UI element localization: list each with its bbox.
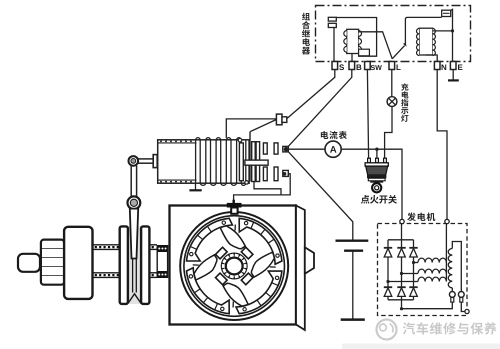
rectifier diodes column 2: [397, 240, 405, 300]
brush holders: [216, 247, 253, 284]
motor housing: [170, 206, 297, 325]
motor housing side 3D: [296, 206, 305, 331]
brush left: [451, 298, 454, 303]
solenoid ground: [195, 183, 197, 190]
regulator arm path: [405, 17, 441, 45]
wire N to generator: [437, 70, 447, 220]
wire tap to middle prong: [376, 149, 378, 158]
relay contact K2: [442, 10, 451, 16]
solenoid coil turns: [196, 138, 246, 186]
collar pulley: [120, 226, 150, 304]
shaft threaded section lower-left: [93, 273, 120, 278]
shift fork arm: [130, 209, 138, 259]
phase tap 1: [412, 261, 415, 264]
wire battery to ground: [352, 251, 354, 319]
upper pivot: [129, 156, 139, 166]
wire S to solenoid switch terminal: [287, 70, 335, 119]
relay contact K1 lower: [328, 23, 336, 27]
wire contact plate to motor: [254, 182, 281, 195]
field pole SW: [187, 255, 234, 314]
watermark text 汽车维修与保养: [403, 322, 497, 334]
stator coil 3: [418, 277, 446, 281]
rotor field winding: [448, 242, 461, 292]
plunger crossbar: [153, 155, 157, 168]
solenoid terminal mid bolt: [283, 146, 289, 152]
watermark bottom band: [342, 344, 500, 349]
E ground: [448, 79, 459, 81]
label 电流表: [321, 131, 347, 139]
stator star rail to N: [445, 224, 447, 282]
generator terminal B+: [400, 219, 404, 223]
shaft threaded stub upper-right: [149, 245, 157, 250]
moving arm V right: [392, 46, 404, 59]
wire left brush to ground bus: [402, 302, 453, 309]
wire SW to switch: [367, 70, 368, 159]
wire junction to battery: [286, 149, 353, 240]
stator outer ring: [180, 212, 288, 320]
generator F terminal: [465, 309, 469, 313]
label 组合继电器 (vertical): [302, 13, 310, 55]
shaft threaded section upper-left: [93, 245, 120, 250]
solenoid contact stack: [238, 132, 278, 185]
wire contact to S terminal: [333, 28, 335, 62]
solenoid body: [158, 140, 249, 183]
label 充电指示灯 (vertical): [401, 83, 408, 122]
relay terminals S B SW L N E: [332, 62, 456, 70]
wire coil2 top to junction: [433, 30, 453, 32]
stator inner ring: [184, 216, 285, 317]
junction ground bus: [400, 307, 403, 310]
wire rod to top terminal: [250, 120, 276, 132]
watermark logo: [377, 320, 397, 340]
motor brush terminal: [227, 200, 242, 214]
battery plate positive: [336, 240, 369, 242]
shaft nose: [18, 254, 40, 272]
commutator: [221, 253, 248, 280]
label 点火开关: [361, 195, 397, 204]
junction bottom terminal: [283, 172, 287, 176]
wire lamp to switch prong: [385, 107, 392, 159]
wire L to lamp: [391, 70, 393, 97]
junction mid terminal: [284, 147, 289, 152]
junction ignition tap: [375, 148, 378, 151]
relay contact K1 upper: [328, 17, 336, 21]
battery plate negative: [344, 250, 363, 252]
link bars: [130, 166, 132, 198]
wire junction to ammeter: [286, 148, 325, 150]
pinion block: [41, 240, 64, 285]
wire B+ to rectifier bus: [401, 224, 403, 240]
slip ring left: [449, 292, 455, 298]
rectifier top bus: [388, 239, 414, 241]
wire contact to node: [336, 18, 376, 57]
ignition switch: [365, 158, 388, 192]
field pole NE: [235, 218, 282, 277]
battery ground: [341, 318, 365, 321]
wire coil to B terminal: [351, 54, 353, 62]
brush right: [460, 298, 463, 303]
stator coil 2: [418, 269, 446, 273]
rectifier diodes column 3: [409, 240, 417, 300]
wire contact K2 to E line: [451, 9, 453, 61]
slip ring right: [458, 292, 464, 298]
plunger link rods: [138, 158, 153, 160]
label 发电机: [407, 212, 435, 221]
shaft threaded stub lower-right: [149, 273, 157, 278]
wire right brush to F terminal: [461, 302, 465, 311]
relay coil L1 (cut-out relay): [344, 29, 362, 53]
generator box (dashed): [378, 224, 468, 316]
field pole NW: [187, 218, 246, 265]
wire bus to junction: [401, 300, 403, 309]
shaft coupling: [157, 245, 168, 278]
generator terminal N: [445, 219, 449, 223]
relay armature step: [359, 49, 370, 56]
charge indicator lamp: [387, 97, 397, 107]
motor side lug: [305, 247, 314, 274]
rectifier diodes column 1: [384, 240, 392, 300]
lower pivot: [127, 196, 140, 209]
solenoid terminal bottom bolt: [283, 170, 289, 176]
wire ammeter to generator B+: [341, 149, 402, 219]
wire bottom terminal to motor: [234, 174, 291, 201]
wire coil top to moving arm: [359, 32, 393, 59]
relay coil L2 (regulator): [417, 28, 436, 55]
wire E to ground: [452, 70, 454, 80]
drive clutch block: [64, 227, 92, 299]
rectifier bottom bus: [388, 299, 414, 301]
wire coil2 bottom to N terminal: [426, 55, 437, 62]
phase tap 2: [400, 272, 403, 275]
terminal labels: [339, 64, 462, 70]
stator coil 1: [418, 258, 446, 262]
wire coil lead to top terminal: [226, 119, 276, 138]
ammeter A: [325, 141, 341, 157]
phase tap 3: [386, 280, 389, 283]
field pole SE: [223, 267, 282, 314]
solenoid terminal top: [276, 114, 282, 125]
junction coil2-E: [451, 29, 454, 32]
combination relay box (dash-dot border): [316, 6, 471, 62]
wire B to solenoid battery terminal: [286, 70, 352, 149]
